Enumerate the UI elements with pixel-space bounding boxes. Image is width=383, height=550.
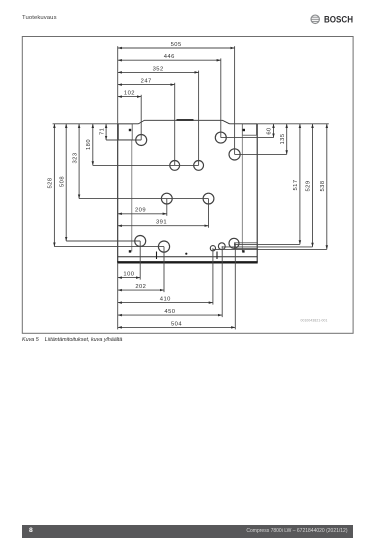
svg-text:60: 60	[267, 127, 273, 134]
svg-text:180: 180	[86, 139, 92, 150]
svg-text:504: 504	[171, 321, 182, 327]
svg-text:508: 508	[59, 176, 65, 187]
svg-text:323: 323	[72, 152, 78, 163]
svg-text:505: 505	[171, 42, 182, 48]
svg-text:71: 71	[99, 128, 105, 135]
svg-text:529: 529	[306, 180, 312, 191]
svg-text:102: 102	[124, 91, 135, 97]
svg-text:209: 209	[135, 208, 146, 214]
svg-text:517: 517	[293, 179, 299, 190]
svg-text:100: 100	[123, 272, 134, 278]
svg-text:538: 538	[320, 180, 326, 191]
svg-text:352: 352	[153, 66, 164, 72]
svg-text:202: 202	[135, 284, 146, 290]
svg-text:410: 410	[160, 297, 171, 303]
svg-text:450: 450	[164, 309, 175, 315]
svg-text:391: 391	[156, 220, 167, 226]
svg-text:135: 135	[280, 133, 286, 144]
svg-text:446: 446	[164, 54, 175, 60]
svg-text:528: 528	[48, 177, 54, 188]
svg-text:0010043821-001: 0010043821-001	[300, 319, 327, 323]
svg-text:247: 247	[141, 79, 152, 85]
